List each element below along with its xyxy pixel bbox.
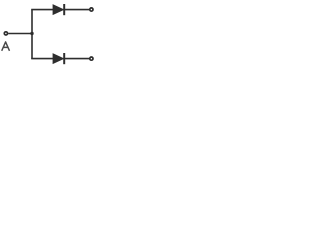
- label A: [2, 42, 10, 51]
- diode D2: [53, 53, 64, 64]
- junction dot: [30, 32, 33, 35]
- terminal bottom right: [90, 57, 93, 60]
- wire vertical bus: [31, 10, 33, 59]
- wire top branch right: [65, 9, 89, 11]
- node A: [4, 32, 7, 35]
- diode D1: [53, 4, 64, 15]
- wire bottom branch left: [31, 58, 53, 60]
- wire top branch left: [31, 9, 53, 11]
- wire from node A to junction: [8, 33, 32, 35]
- terminal top right: [90, 8, 93, 11]
- wire bottom branch right: [65, 58, 89, 60]
